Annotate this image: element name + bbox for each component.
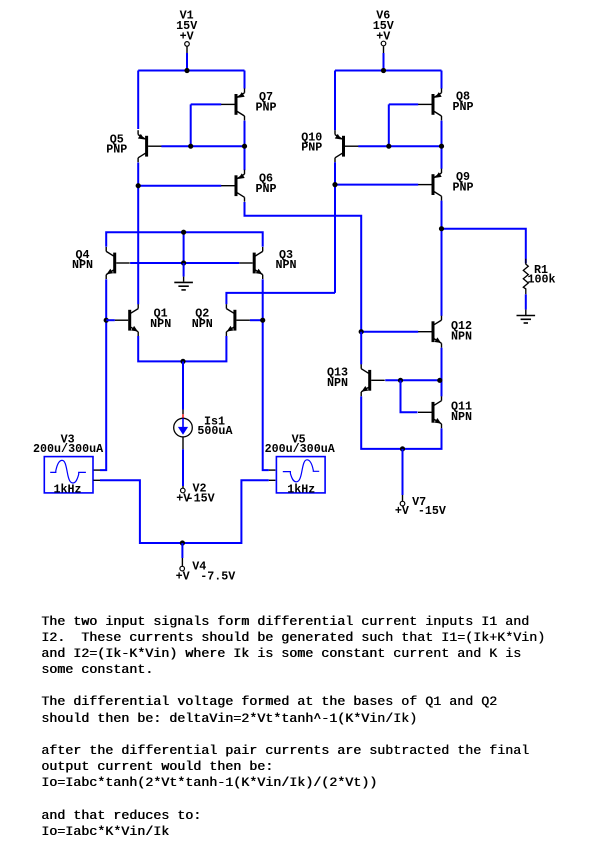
- junction Q12 base / Q13 collector: [359, 329, 364, 334]
- svg-text:+V: +V: [180, 29, 194, 43]
- wire Q10 base rail: [358, 145, 441, 147]
- node +V (V6 supply rail): [335, 70, 442, 72]
- wire Q7 base link: [191, 103, 222, 105]
- svg-text:+V: +V: [395, 504, 409, 518]
- transistor Q2: [226, 304, 250, 336]
- resistor R1: [523, 259, 528, 295]
- terminal V4: [180, 566, 185, 571]
- svg-text:NPN: NPN: [451, 410, 472, 424]
- wire Q6 collector to Q12 base: [245, 202, 362, 332]
- junction Q5 base / Q7 collector: [242, 144, 247, 149]
- source V5 box: [276, 457, 325, 493]
- V5 sine symbol: [283, 460, 319, 482]
- wire Q8 collector to Q9 emitter: [441, 121, 443, 169]
- wire rail to Q5 emitter: [137, 71, 139, 130]
- wire Is1 to V2: [182, 437, 184, 449]
- wire R1 to ground: [525, 294, 527, 309]
- svg-text:100k: 100k: [528, 273, 556, 287]
- svg-text:PNP: PNP: [301, 141, 322, 155]
- svg-text:NPN: NPN: [72, 258, 93, 272]
- terminal V1: [185, 42, 190, 47]
- junction tail node: [180, 359, 185, 364]
- wire collector rail to base rail link: [183, 232, 185, 263]
- wire rail to Q7 emitter: [244, 71, 246, 89]
- wire Q11 base link: [401, 380, 418, 412]
- ground (input pair): [174, 282, 193, 290]
- wire V7 stub: [402, 449, 404, 495]
- wire Q4 emitter to V3 plus: [100, 279, 106, 470]
- wire Q12 base: [361, 331, 418, 333]
- wire rail to Q8 emitter: [441, 71, 443, 89]
- wire Q5 base rail: [161, 145, 244, 147]
- transistor Q8: [418, 88, 442, 120]
- wire Q12 emitter to Q11 collector: [441, 348, 443, 397]
- terminal V6: [381, 41, 386, 46]
- transistor Q6: [221, 170, 245, 202]
- transistor Q13: [361, 364, 385, 396]
- wire V4 stub: [181, 543, 183, 558]
- wire Q9 base rail: [335, 184, 418, 186]
- wire rail to Q10 emitter: [334, 71, 336, 131]
- wire V1 terminal stub: [186, 53, 188, 71]
- svg-text:NPN: NPN: [275, 258, 296, 272]
- wire Q7 collector to Q6 emitter: [244, 121, 246, 171]
- svg-text:200u/300uA: 200u/300uA: [33, 442, 104, 456]
- svg-text:-15V: -15V: [187, 491, 215, 505]
- V3 sine symbol: [50, 460, 86, 483]
- wire V3 minus: [93, 479, 100, 481]
- svg-text:200u/300uA: 200u/300uA: [265, 442, 336, 456]
- wire emitter rail (tail node): [138, 336, 226, 361]
- svg-text:500uA: 500uA: [197, 424, 233, 438]
- junction Q8 base / Q10 base: [386, 144, 391, 149]
- wire Q4-Q3 collector rail: [106, 232, 263, 247]
- transistor Q12: [418, 316, 442, 348]
- svg-text:-7.5V: -7.5V: [200, 570, 235, 584]
- junction V6 rail: [381, 68, 386, 73]
- junction base rail / ground: [181, 260, 186, 265]
- transistor Q7: [221, 88, 245, 120]
- junction Q12 emitter / Q11 collector: [437, 378, 442, 383]
- wire Q3 emitter to V5 plus: [263, 279, 269, 470]
- transistor Q9: [418, 169, 442, 201]
- wire V5 minus: [269, 479, 276, 481]
- junction Q13 base / Q11 base: [398, 378, 403, 383]
- ground (R1): [517, 316, 536, 324]
- junction Q10 collector / Q9 base: [332, 182, 337, 187]
- wire Q9 collector down: [441, 201, 443, 316]
- junction bottom rail / V4: [180, 540, 185, 545]
- wire Q8 base link: [389, 103, 418, 105]
- transistor Q4: [106, 247, 130, 279]
- svg-text:+V: +V: [176, 570, 190, 584]
- junction Q10 base / Q8 collector: [439, 144, 444, 149]
- wire tail to Is1: [182, 361, 184, 409]
- svg-text:+V: +V: [376, 29, 390, 43]
- svg-text:PNP: PNP: [255, 100, 276, 114]
- svg-text:1kHz: 1kHz: [287, 482, 315, 496]
- wire ground stem: [183, 263, 185, 277]
- node +V (V1 supply rail): [138, 70, 244, 72]
- wire Q13 collector up: [360, 332, 362, 365]
- svg-text:NPN: NPN: [451, 330, 472, 344]
- svg-text:PNP: PNP: [106, 143, 127, 157]
- svg-text:1kHz: 1kHz: [54, 482, 82, 496]
- terminal V2: [181, 488, 186, 493]
- wire Q4-Q3 base rail: [130, 262, 239, 264]
- svg-text:NPN: NPN: [192, 317, 213, 331]
- transistor Q10: [335, 130, 359, 162]
- transistor Q11: [418, 396, 442, 428]
- description text block: [41, 615, 545, 841]
- junction V7 node: [400, 446, 405, 451]
- wire Q13 base rail: [385, 379, 441, 381]
- transistor Q5: [138, 130, 162, 162]
- svg-text:PNP: PNP: [255, 182, 276, 196]
- wire V6 terminal stub: [383, 53, 385, 71]
- wire Q2 collector link: [226, 293, 335, 304]
- junction V1 rail: [184, 68, 189, 73]
- svg-text:PNP: PNP: [452, 100, 473, 114]
- wire Q10 collector down: [334, 162, 336, 293]
- Is1 plus lead (red): [182, 414, 184, 418]
- svg-text:PNP: PNP: [452, 181, 473, 195]
- junction Q9 collector / R1: [439, 226, 444, 231]
- wire bottom rail: [100, 480, 269, 543]
- svg-text:NPN: NPN: [327, 376, 348, 390]
- junction collector rail / ground link: [181, 230, 186, 235]
- wire emitter rail to V7: [361, 396, 441, 449]
- wire Q2 base: [250, 319, 263, 321]
- svg-text:-15V: -15V: [418, 504, 446, 518]
- wire Q1 base: [106, 319, 115, 321]
- transistor Q1: [115, 304, 139, 336]
- wire V3 plus stub: [93, 469, 100, 471]
- junction Q5 collector / Q6 base / Q1 collector: [136, 183, 141, 188]
- wire output node to R1: [442, 229, 526, 264]
- transistor Q3: [239, 247, 263, 279]
- wire Q5 collector to Q6 base: [137, 163, 139, 305]
- junction Q3 emitter / Q2 base / V5: [260, 318, 265, 323]
- svg-text:NPN: NPN: [150, 317, 171, 331]
- wire V5 plus stub: [269, 469, 276, 471]
- source V3 box: [44, 457, 93, 493]
- terminal V7: [400, 501, 405, 506]
- junction Q4 emitter / Q1 base / V3: [104, 318, 109, 323]
- junction Q7 base / Q5 base: [188, 144, 193, 149]
- current source Is1: [174, 418, 193, 437]
